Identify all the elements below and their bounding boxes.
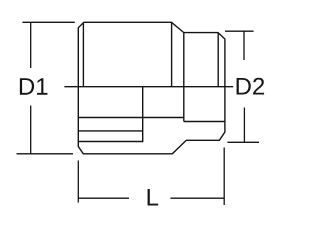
- L dimension line left: [78, 197, 129, 199]
- D1 dimension line lower: [30, 106, 32, 154]
- D2 bottom extension line: [228, 141, 260, 143]
- nose left edge line: [183, 33, 185, 122]
- body step edge line lower: [78, 141, 142, 143]
- L left extension line: [77, 161, 79, 203]
- body step edge line upper: [78, 117, 184, 119]
- shoulder face edge line: [171, 22, 173, 87]
- body step edge line middle: [78, 130, 142, 132]
- socket body outline: [78, 22, 225, 154]
- diameter leader line: [64, 86, 233, 88]
- nose right chamfer edge line: [217, 33, 219, 87]
- L dimension line right: [170, 197, 224, 199]
- mid body vertical edge line: [142, 87, 144, 142]
- label D2: [237, 78, 251, 95]
- D2 top extension line: [225, 30, 254, 32]
- D1 bottom extension line: [17, 153, 74, 155]
- label D1: [20, 78, 34, 95]
- nose step edge line: [184, 121, 225, 123]
- D1 dimension line upper: [30, 22, 32, 68]
- D1 top extension line: [22, 21, 74, 23]
- left chamfer edge line: [82, 24, 84, 87]
- D2 dimension line lower: [243, 108, 245, 143]
- L right extension line: [223, 148, 225, 206]
- label L: [148, 189, 159, 206]
- D2 dimension line upper: [243, 31, 245, 60]
